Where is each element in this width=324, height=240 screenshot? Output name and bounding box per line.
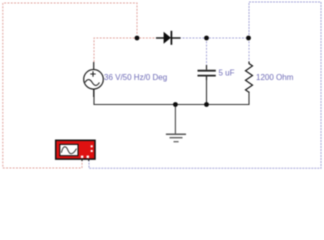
junction: resistor top / output: [246, 36, 251, 41]
wire: lavender net, capacitor top lead upper part: [206, 38, 208, 65]
ground: [166, 134, 186, 142]
svg-text:5 uF: 5 uF: [219, 69, 235, 78]
wire: pink net loop from scope channel A to source + node: [3, 3, 137, 168]
oscilloscope XSC1: [56, 140, 95, 161]
diode D1: [156, 31, 181, 45]
wire: ground net, source - terminal along bottom to resistor bottom: [94, 90, 249, 105]
capacitor C1 (5 uF): [198, 65, 216, 80]
wire: ground net, ground stem: [174, 105, 176, 134]
wire: lavender net, resistor top lead upper part: [248, 38, 250, 62]
AC voltage source V1 (36 V / 50 Hz / 0 Deg): [84, 62, 104, 97]
junction: capacitor top: [204, 36, 209, 41]
wire: pink net, source + terminal to diode anode: [94, 38, 156, 62]
wire: ground net, capacitor bottom lead: [206, 76, 208, 105]
junction: capacitor bottom: [204, 102, 209, 107]
junction: ground node: [173, 102, 178, 107]
resistor R1 (1200 Ohm): [246, 62, 253, 93]
svg-text:1200 Ohm: 1200 Ohm: [256, 73, 294, 82]
wire: lavender net loop from output node to scope channel B: [89, 2, 321, 168]
svg-text:36 V/50 Hz/0 Deg: 36 V/50 Hz/0 Deg: [104, 73, 167, 82]
junction: source node / pink feed: [135, 36, 140, 41]
wire: lavender net, diode cathode to capacitor/resistor top junctions: [176, 37, 249, 39]
